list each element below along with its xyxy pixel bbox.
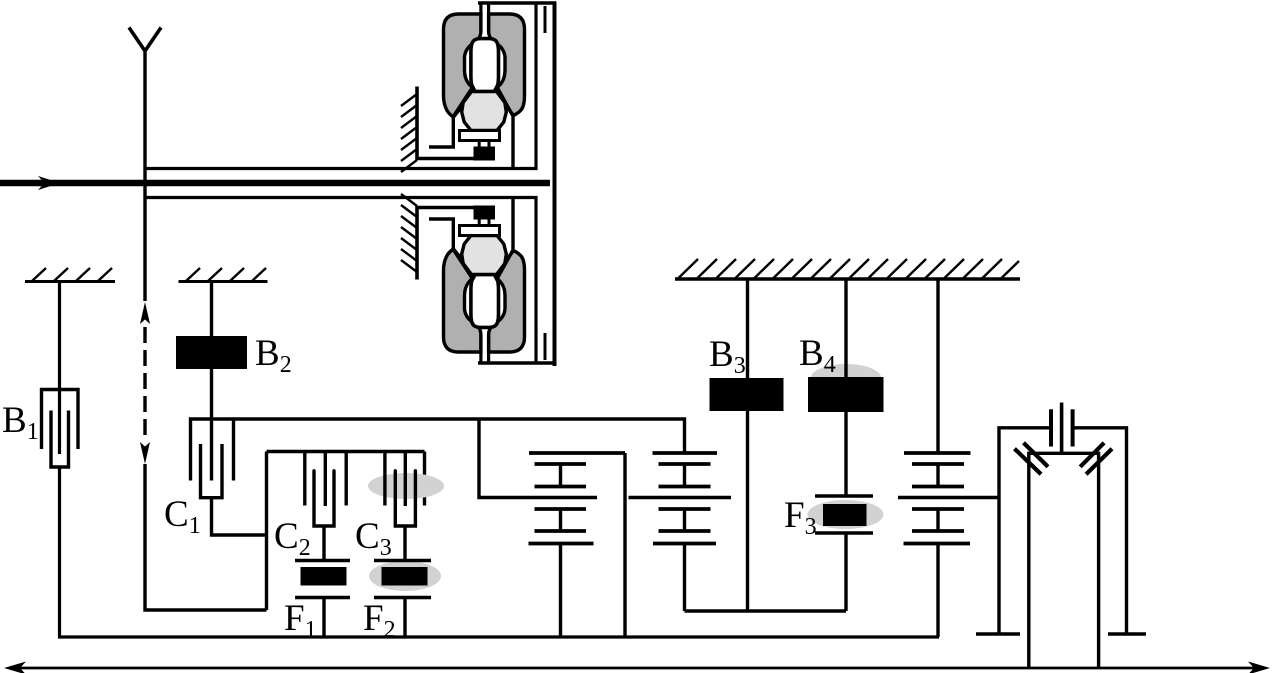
freewheel F1 bottom race bbox=[295, 596, 350, 599]
freewheel F3 top race bbox=[815, 494, 873, 497]
C3 center shaft bbox=[404, 452, 407, 507]
final drive right foot tick bbox=[1108, 632, 1146, 636]
clutch C3 outer plate left bbox=[383, 452, 386, 506]
dashed shaft segment bbox=[143, 327, 146, 437]
svg-text:B4: B4 bbox=[799, 333, 836, 378]
P2 ring top bbox=[653, 451, 718, 455]
planetary gearset 3 bbox=[898, 453, 999, 637]
B2 ground hatches bbox=[186, 268, 266, 281]
P2 sun upper bar 1 bbox=[659, 462, 711, 466]
B1 shaft from ground bbox=[58, 282, 61, 455]
P2 lower tick bbox=[683, 509, 686, 531]
engine vertical shaft lower, to drum link bbox=[145, 464, 267, 610]
C2 inner cup bbox=[314, 471, 334, 526]
P2 sun upper bar 2 bbox=[659, 485, 711, 489]
svg-text:B2: B2 bbox=[255, 333, 292, 378]
brake B4 gray cap bbox=[811, 364, 881, 378]
gray ellipse behind F2 bbox=[369, 561, 441, 591]
ceiling hatches bbox=[678, 259, 1019, 279]
pinion plate right bbox=[1071, 409, 1075, 446]
planetary gearset 3 shaft from ceiling bbox=[936, 279, 939, 453]
svg-text:F3: F3 bbox=[784, 495, 817, 540]
brake B3 shaft bbox=[746, 279, 749, 611]
brake B4 block bbox=[808, 377, 884, 412]
P3 upper tick bbox=[936, 464, 939, 487]
F3 shaft down bbox=[844, 533, 847, 611]
final drive left foot tick bbox=[976, 632, 1020, 636]
P3 sun upper bar 1 bbox=[912, 462, 964, 466]
P3 lower bar 1 bbox=[912, 507, 964, 511]
freewheel F1 top race bbox=[295, 559, 350, 562]
P1 sun shaft down bbox=[559, 544, 562, 638]
P3 lower tick bbox=[936, 509, 939, 531]
P3 sun shaft down bbox=[936, 544, 939, 638]
P2 ring wire down bbox=[683, 544, 686, 612]
P2 upper tick bbox=[683, 464, 686, 487]
P2 lower bar 1 bbox=[659, 507, 711, 511]
B1 ground hatches bbox=[32, 268, 112, 281]
gray ellipse behind F3 bbox=[808, 500, 884, 529]
wire P2 ring to B3 and F3 bbox=[685, 609, 847, 612]
gray ellipse behind C3 plates bbox=[368, 473, 444, 499]
P3 carrier line to output bbox=[898, 496, 999, 499]
bottom shaft rail bbox=[58, 635, 939, 638]
freewheel F3 block bbox=[823, 504, 867, 526]
C2 center shaft bbox=[324, 452, 327, 507]
clutch C2 outer plate left bbox=[303, 452, 306, 506]
P3 ring top bbox=[904, 451, 971, 455]
planetary gearset 1 bbox=[529, 453, 626, 637]
P1 ring bottom bbox=[529, 542, 594, 546]
C2 outer plate right bbox=[345, 452, 348, 506]
input shaft (thick) bbox=[0, 180, 550, 187]
input drum right wall / C3 outer plate bbox=[423, 452, 426, 506]
pinion shaft stub bbox=[1060, 403, 1064, 454]
left axle arrowhead bbox=[4, 662, 26, 673]
P1 lower bar 1 bbox=[535, 507, 587, 511]
svg-text:B3: B3 bbox=[709, 334, 746, 379]
P2 lower bar 2 bbox=[659, 529, 711, 533]
P1 ring top bbox=[529, 451, 625, 455]
converter housing right vertical bbox=[553, 2, 557, 367]
brake B1 inner cup bbox=[51, 411, 69, 468]
C1 right outer plate bbox=[232, 419, 235, 481]
svg-text:B1: B1 bbox=[2, 400, 39, 445]
svg-text:C2: C2 bbox=[274, 516, 311, 561]
freewheel F1 block bbox=[301, 567, 347, 586]
P1 ring output wire down bbox=[623, 453, 626, 637]
brake B3 block bbox=[710, 378, 784, 411]
pinion plate left bbox=[1049, 409, 1053, 446]
freewheel F2 bottom race bbox=[374, 596, 431, 599]
P1 sun upper bar 2 bbox=[535, 485, 587, 489]
input drum left wall bbox=[265, 452, 268, 611]
C3 output shaft bbox=[403, 526, 406, 561]
P2 carrier line bbox=[629, 496, 732, 499]
input arrow bbox=[38, 176, 60, 190]
brake B1 ground line bbox=[25, 280, 115, 283]
P1 upper tick bbox=[559, 464, 562, 487]
torque converter upper half bbox=[145, 3, 556, 172]
P1 sun upper bar 1 bbox=[535, 462, 587, 466]
clutch C1 drum rim wire to gearset 2 bbox=[191, 419, 685, 481]
up arrowhead bbox=[140, 302, 150, 324]
freewheel F2 top race bbox=[374, 559, 431, 562]
right axle arrowhead bbox=[1248, 662, 1270, 673]
wire input to planetary 1 carrier bbox=[479, 419, 597, 498]
C2 output shaft bbox=[322, 526, 325, 561]
brake B2 ground line bbox=[179, 280, 268, 283]
engine Y mount right arm bbox=[145, 28, 161, 52]
C1 output wire to drum bbox=[212, 498, 267, 535]
P1 lower tick bbox=[559, 509, 562, 531]
P3 ring bottom bbox=[904, 542, 971, 546]
planetary gearset 2 bbox=[629, 453, 732, 611]
freewheel F3 bottom race bbox=[815, 531, 873, 534]
brake B1 outer drum bbox=[42, 390, 79, 450]
P2 ring bottom bbox=[653, 542, 716, 546]
freewheel F2 block bbox=[382, 567, 428, 586]
svg-text:C1: C1 bbox=[164, 494, 201, 539]
engine Y mount left arm bbox=[129, 28, 145, 52]
B1 output line down bbox=[58, 467, 61, 637]
F2 shaft down bbox=[403, 598, 406, 638]
brake B2 block bbox=[176, 336, 247, 369]
F1 shaft down bbox=[322, 598, 325, 638]
bevel mesh strokes right bbox=[1080, 443, 1112, 474]
final drive outer frame left wall bbox=[999, 428, 1051, 633]
brake B4 shaft bbox=[844, 279, 847, 496]
torque converter lower half (mirror) bbox=[145, 194, 556, 363]
output axle line bbox=[14, 667, 1258, 670]
final drive inner frame bbox=[1029, 453, 1099, 668]
C3 inner cup bbox=[395, 471, 415, 526]
input drum rim bbox=[267, 450, 425, 453]
C1 inner cup bbox=[201, 444, 223, 498]
down arrowhead bbox=[140, 442, 150, 464]
final drive outer frame right wall bbox=[1074, 428, 1127, 633]
B2 / C1 shaft bbox=[210, 282, 213, 481]
transmission case ceiling bbox=[675, 277, 1020, 280]
bevel mesh strokes left bbox=[1015, 443, 1049, 474]
svg-text:C3: C3 bbox=[355, 516, 392, 561]
P1 lower bar 2 bbox=[535, 529, 587, 533]
P3 lower bar 2 bbox=[912, 529, 964, 533]
P3 sun upper bar 2 bbox=[912, 485, 964, 489]
engine vertical shaft upper bbox=[143, 49, 146, 301]
